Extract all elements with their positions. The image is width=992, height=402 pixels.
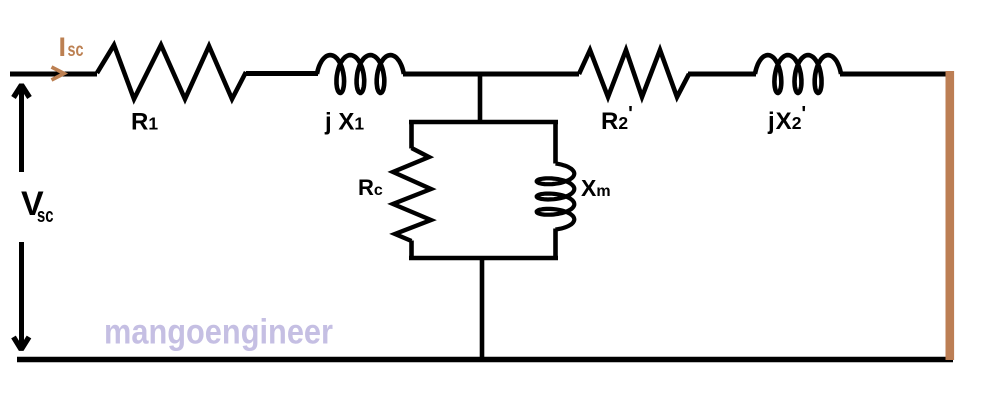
- Vsc arrow up head: [14, 85, 30, 98]
- svg-text:Isc: Isc: [59, 32, 84, 62]
- wire box bottom: [409, 256, 558, 261]
- wire: [840, 72, 947, 77]
- svg-text:Vsc: Vsc: [21, 185, 54, 227]
- svg-text:mangoengineer: mangoengineer: [104, 312, 333, 352]
- inductor jX2': [755, 55, 841, 93]
- wire: [688, 72, 756, 77]
- wire box right upper: [553, 120, 558, 164]
- resistor Rc: [393, 148, 431, 241]
- wire: [10, 72, 97, 77]
- svg-text:jX2': jX2': [767, 103, 806, 135]
- inductor jX1: [317, 55, 404, 93]
- Isc current arrow: [52, 67, 65, 80]
- wire box left lower: [409, 241, 414, 259]
- wire: [246, 71, 318, 76]
- svg-text:Rc: Rc: [358, 175, 383, 200]
- resistor R2': [579, 50, 689, 97]
- svg-text:j X1: j X1: [324, 109, 364, 136]
- wire: [403, 72, 579, 77]
- Vsc arrow down head: [14, 337, 30, 350]
- wire junction to box: [478, 74, 483, 122]
- short-circuit bar: [946, 71, 955, 360]
- inductor Xm: [537, 164, 575, 230]
- Vsc arrow down line: [19, 242, 24, 349]
- wire box left upper: [409, 120, 414, 149]
- svg-text:R1: R1: [131, 109, 158, 136]
- svg-text:R2': R2': [601, 103, 633, 135]
- resistor R1: [97, 45, 246, 99]
- wire: [17, 357, 953, 363]
- wire box to bottom: [480, 258, 485, 359]
- wire box top: [409, 120, 558, 125]
- Vsc arrow up line: [19, 85, 24, 172]
- wire box right lower: [553, 229, 558, 259]
- svg-text:Xm: Xm: [581, 175, 611, 201]
